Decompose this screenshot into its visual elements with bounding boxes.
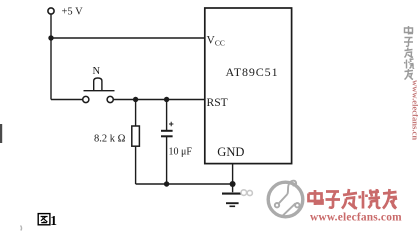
svg-text:RST: RST [207, 96, 228, 109]
svg-text:10 μF: 10 μF [169, 147, 193, 158]
svg-text:1: 1 [50, 213, 57, 228]
svg-text:VCC: VCC [207, 35, 225, 48]
svg-text:GND: GND [217, 145, 244, 159]
svg-text:www.elecfans.com: www.elecfans.com [310, 212, 402, 224]
svg-text:AT89C51: AT89C51 [226, 65, 279, 79]
svg-text:+5 V: +5 V [62, 6, 84, 17]
svg-text:8.2 k Ω: 8.2 k Ω [94, 134, 126, 145]
svg-text:N: N [93, 66, 101, 77]
svg-text:www.elecfans.cn: www.elecfans.cn [411, 80, 418, 140]
